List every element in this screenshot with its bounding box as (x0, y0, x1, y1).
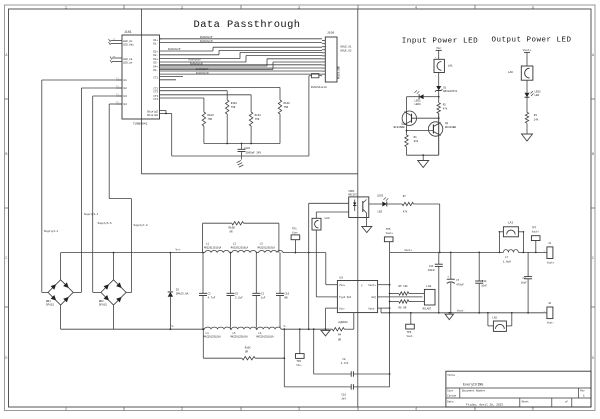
svg-text:Vout+: Vout+ (547, 262, 555, 265)
svg-text:LED: LED (378, 211, 383, 214)
svg-text:MAZ2012S101A: MAZ2012S101A (231, 246, 249, 249)
svg-text:Vout+: Vout+ (368, 284, 376, 287)
svg-text:NB: NB (285, 296, 289, 299)
svg-text:CT1: CT1 (153, 77, 158, 80)
svg-text:2: 2 (181, 408, 183, 412)
svg-text:TUSB8041: TUSB8041 (133, 123, 148, 126)
svg-text:L4: L4 (206, 332, 210, 335)
svg-text:U1: U1 (124, 79, 128, 82)
svg-text:DF01S: DF01S (46, 304, 54, 307)
svg-text:SMAJ5.0A: SMAJ5.0A (176, 293, 189, 296)
svg-text:L5: L5 (233, 332, 237, 335)
svg-text:10uF: 10uF (521, 282, 527, 285)
svg-text:U3: U3 (340, 276, 344, 279)
svg-text:1: 1 (65, 6, 67, 10)
svg-text:D1: D1 (443, 86, 447, 89)
svg-text:J100: J100 (327, 32, 334, 35)
svg-text:MOC207: MOC207 (348, 194, 357, 197)
svg-text:Supply1-2: Supply1-2 (44, 229, 58, 233)
svg-text:J1: J1 (548, 242, 552, 245)
svg-text:Q2: Q2 (401, 123, 405, 126)
svg-text:D3-: D3- (153, 62, 158, 65)
svg-text:4.7nF: 4.7nF (341, 362, 349, 365)
svg-text:4: 4 (415, 6, 417, 10)
svg-text:R101: R101 (255, 114, 262, 117)
svg-text:U2: U2 (124, 87, 128, 90)
svg-text:C2: C2 (208, 292, 212, 295)
svg-text:LA5: LA5 (492, 316, 497, 319)
svg-text:R103: R103 (207, 114, 214, 117)
svg-text:J2: J2 (548, 302, 552, 305)
svg-text:MCLAOT: MCLAOT (423, 307, 432, 310)
svg-text:C11: C11 (429, 265, 434, 268)
svg-text:0R: 0R (338, 339, 342, 342)
svg-text:Date:: Date: (447, 401, 454, 404)
svg-text:L2: L2 (233, 243, 237, 246)
svg-text:Vout-: Vout- (457, 309, 465, 312)
svg-text:4.7uF: 4.7uF (208, 296, 216, 299)
svg-text:1kV: 1kV (341, 396, 346, 400)
svg-text:BR1: BR1 (46, 300, 51, 303)
svg-text:C12: C12 (482, 280, 487, 283)
svg-text:AgN1R8: AgN1R8 (338, 321, 348, 324)
svg-text:CT4: CT4 (153, 98, 158, 101)
svg-text:RxRxOutP: RxRxOutP (200, 36, 213, 39)
svg-text:1uF: 1uF (261, 296, 266, 299)
svg-text:V-: V- (284, 325, 288, 328)
svg-text:TP2: TP2 (296, 360, 301, 363)
svg-text:U3: U3 (124, 95, 128, 98)
svg-text:5: 5 (532, 408, 534, 412)
svg-text:BC846BW: BC846BW (445, 126, 456, 129)
svg-text:LA1: LA1 (448, 65, 453, 68)
svg-text:BC846BW: BC846BW (394, 126, 405, 129)
svg-text:R102: R102 (231, 102, 238, 105)
svg-text:C4: C4 (522, 277, 526, 280)
svg-text:R1: R1 (414, 136, 418, 139)
svg-text:C8: C8 (342, 358, 346, 361)
svg-text:Size: Size (447, 390, 453, 393)
svg-text:1.0uH: 1.0uH (503, 261, 511, 264)
svg-text:Sheet: Sheet (522, 401, 530, 404)
svg-text:0R: 0R (230, 231, 234, 234)
svg-text:D1-: D1- (153, 43, 158, 46)
svg-text:10nF: 10nF (481, 284, 487, 287)
svg-text:3: 3 (298, 6, 300, 10)
svg-text:ISO1: ISO1 (348, 190, 355, 193)
svg-text:V++: V++ (176, 249, 181, 252)
svg-text:Vout+: Vout+ (532, 231, 540, 234)
svg-text:MAZ2012S101A: MAZ2012S101A (231, 336, 249, 339)
svg-text:Vin-: Vin- (339, 306, 346, 310)
svg-text:DF01S: DF01S (99, 304, 107, 307)
svg-text:Custom: Custom (447, 394, 456, 397)
svg-text:LED2: LED2 (535, 90, 542, 93)
svg-text:LA3: LA3 (508, 221, 513, 224)
svg-text:TP6: TP6 (407, 331, 412, 334)
svg-text:47k: 47k (443, 106, 448, 110)
svg-text:R5 10k: R5 10k (399, 284, 409, 288)
svg-text:L1: L1 (206, 243, 210, 246)
svg-text:75R: 75R (255, 118, 260, 121)
svg-text:Data Passthrough: Data Passthrough (194, 19, 301, 31)
svg-text:D2-: D2- (153, 54, 158, 57)
svg-text:D: D (5, 357, 7, 361)
svg-text:C: C (5, 257, 7, 261)
svg-text:1000pF 2KV: 1000pF 2KV (246, 151, 262, 154)
svg-text:5: 5 (532, 6, 534, 10)
svg-text:D2: D2 (176, 289, 180, 292)
svg-text:L6: L6 (258, 332, 262, 335)
svg-text:LED1: LED1 (415, 103, 422, 106)
svg-text:Output Power LED: Output Power LED (491, 37, 571, 45)
svg-text:Supply5-6: Supply5-6 (98, 221, 112, 225)
svg-text:Typ2 Det: Typ2 Det (339, 296, 352, 299)
svg-text:0R: 0R (245, 350, 249, 353)
svg-text:Vout-: Vout- (368, 307, 376, 310)
svg-text:Vin+: Vin+ (339, 283, 346, 287)
svg-text:33k: 33k (414, 139, 419, 143)
svg-text:Supply3-4: Supply3-4 (84, 212, 98, 216)
svg-text:TP7: TP7 (532, 227, 537, 230)
svg-text:L7: L7 (505, 256, 509, 259)
svg-text:C5: C5 (235, 292, 239, 295)
svg-text:Adj: Adj (371, 295, 376, 299)
svg-text:LA4: LA4 (325, 217, 330, 220)
svg-text:R7: R7 (403, 195, 407, 198)
svg-text:V-: V- (172, 325, 176, 328)
svg-text:47k: 47k (403, 210, 408, 214)
svg-text:LED_Kat: LED_Kat (123, 44, 134, 47)
svg-text:R10B: R10B (229, 227, 236, 230)
svg-text:Document Number: Document Number (462, 389, 486, 393)
svg-text:75R: 75R (284, 106, 289, 109)
svg-text:Shield1: Shield1 (147, 113, 158, 117)
svg-text:J101: J101 (124, 30, 132, 34)
svg-text:R2: R2 (443, 103, 447, 106)
svg-text:TP1: TP1 (292, 227, 297, 230)
svg-text:HOLE.A2: HOLE.A2 (341, 50, 352, 53)
svg-text:C10: C10 (285, 292, 290, 295)
svg-text:R10C: R10C (245, 346, 252, 349)
svg-text:Vin-: Vin- (296, 364, 302, 367)
svg-text:MOLEX_GND: MOLEX_GND (338, 66, 341, 79)
svg-text:Vin+: Vin+ (292, 231, 298, 234)
svg-text:R6 0R: R6 0R (399, 307, 407, 310)
svg-text:Vout-: Vout- (407, 335, 415, 338)
svg-text:HOLE.A1: HOLE.A1 (341, 46, 352, 49)
svg-text:75R: 75R (231, 106, 236, 109)
svg-text:Q1: Q1 (445, 122, 449, 125)
svg-text:BR2: BR2 (99, 300, 104, 303)
svg-text:MAZ2012S101A: MAZ2012S101A (204, 246, 222, 249)
svg-text:CT3: CT3 (153, 91, 158, 94)
svg-text:4: 4 (415, 408, 417, 412)
svg-text:U4: U4 (124, 103, 128, 106)
svg-text:Vout-: Vout- (547, 322, 555, 325)
svg-text:24k: 24k (534, 118, 539, 122)
svg-text:470uF: 470uF (456, 284, 464, 287)
svg-text:MAZ2012S101A: MAZ2012S101A (258, 246, 276, 249)
svg-text:RxRxOutP: RxRxOutP (168, 48, 181, 51)
svg-text:100nF: 100nF (428, 269, 436, 272)
svg-text:C16: C16 (341, 393, 346, 396)
svg-text:2: 2 (181, 6, 183, 10)
svg-text:Rev: Rev (580, 390, 585, 393)
svg-text:Vout+: Vout+ (404, 249, 412, 252)
svg-text:D: D (592, 357, 594, 361)
svg-text:Vout+: Vout+ (523, 49, 532, 52)
svg-text:R100: R100 (284, 102, 291, 105)
svg-text:RxRxOutN: RxRxOutN (200, 40, 213, 43)
svg-text:LED3: LED3 (377, 194, 384, 197)
svg-text:Title: Title (447, 373, 455, 377)
svg-text:LED_an: LED_an (123, 62, 133, 65)
svg-text:3: 3 (298, 408, 300, 412)
svg-text:TP5: TP5 (386, 228, 391, 231)
svg-text:C3: C3 (261, 292, 265, 295)
svg-text:Vout+: Vout+ (386, 232, 394, 235)
svg-text:EverythING: EverythING (463, 383, 483, 388)
svg-text:Vin: Vin (436, 46, 441, 50)
svg-text:1: 1 (65, 408, 67, 412)
svg-text:BZX84C5V1: BZX84C5V1 (443, 90, 457, 93)
svg-text:MAZ2012S101A: MAZ2012S101A (256, 336, 274, 339)
svg-text:Supply7-8: Supply7-8 (134, 223, 148, 227)
svg-text:R3: R3 (534, 114, 538, 117)
svg-text:C101: C101 (244, 147, 251, 150)
svg-text:C7: C7 (456, 279, 460, 282)
svg-text:C: C (592, 257, 594, 261)
svg-text:D4-: D4- (153, 69, 158, 72)
svg-text:Input Power LED: Input Power LED (402, 38, 479, 46)
svg-text:LA2: LA2 (426, 285, 431, 288)
svg-text:RxRxShield: RxRxShield (311, 85, 327, 89)
svg-text:75R: 75R (207, 118, 212, 121)
svg-text:R4: R4 (338, 334, 342, 337)
svg-text:B: B (5, 153, 7, 157)
svg-text:MAZ2012S101A: MAZ2012S101A (204, 336, 222, 339)
svg-text:RxRxOutP: RxRxOutP (189, 59, 202, 62)
svg-text:B: B (592, 153, 594, 157)
svg-text:LED: LED (535, 94, 540, 97)
svg-text:L3: L3 (260, 243, 264, 246)
svg-text:Friday, April 28, 2023: Friday, April 28, 2023 (466, 403, 503, 407)
svg-text:2.2uF: 2.2uF (235, 296, 243, 299)
svg-text:LA6: LA6 (508, 71, 513, 74)
